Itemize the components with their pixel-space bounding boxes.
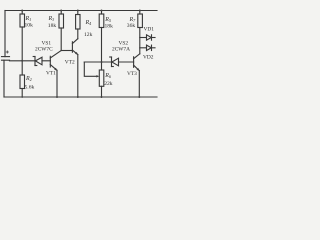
resistor R1 (21, 11, 23, 15)
wire node A row (10, 60, 36, 62)
transistor VT1 (49, 56, 51, 67)
svg-text:R3: R3 (48, 16, 55, 22)
wire VT2 emitter to bottom rail (77, 55, 79, 97)
wire R3 to VT1 collector (60, 28, 62, 51)
junction node B (R5/R6/VS2) (101, 61, 103, 63)
svg-text:R4: R4 (85, 20, 92, 26)
junction R5/top rail (101, 10, 103, 12)
svg-text:VT1: VT1 (46, 71, 56, 77)
wire node B row (84, 61, 111, 63)
wire R5 to node B (101, 28, 103, 63)
svg-text:2CW7A: 2CW7A (112, 47, 130, 53)
wiper branch of R6 (84, 62, 97, 76)
svg-text:VT2: VT2 (65, 59, 75, 65)
wire VT2 emitter (72, 50, 77, 55)
wire VS1 to VT1 base (42, 60, 50, 62)
wire capacitor to bottom rail (3, 60, 5, 97)
svg-text:VD1: VD1 (144, 27, 155, 33)
resistor R2 (20, 75, 25, 89)
emitter arrow VT1 (54, 68, 57, 71)
top supply rail (5, 10, 157, 12)
junction R7/top rail (139, 10, 141, 12)
svg-text:VD2: VD2 (143, 54, 154, 60)
diode VD1 (140, 37, 147, 39)
svg-text:10k: 10k (25, 22, 34, 28)
labels (25, 16, 155, 91)
wire VT1 collector to VT2 base (61, 50, 72, 52)
transistor VT2 (71, 42, 73, 52)
resistor R4 (77, 11, 79, 15)
transistor VT3 (133, 57, 135, 68)
emitter arrow VT3 (137, 68, 140, 71)
svg-text:R5: R5 (104, 17, 111, 23)
zener VS2 (111, 57, 113, 67)
wire VT1 emitter to bottom rail (56, 70, 58, 97)
svg-text:22k: 22k (104, 81, 113, 87)
junction node A (R1/R2/VS1/C) (21, 60, 23, 62)
plus sign of capacitor (6, 51, 9, 54)
svg-text:18k: 18k (48, 23, 57, 29)
svg-text:VS1: VS1 (42, 40, 52, 46)
resistor R7 (139, 11, 141, 15)
svg-text:R1: R1 (25, 16, 32, 22)
rheostat R6 (101, 62, 103, 70)
junction VT2 emitter/bottom rail (77, 96, 79, 98)
svg-text:VT3: VT3 (127, 71, 137, 77)
svg-text:VS2: VS2 (119, 40, 129, 46)
svg-text:12k: 12k (84, 32, 93, 38)
junction R6/bottom rail (101, 96, 103, 98)
diode VD2 (140, 47, 147, 49)
svg-text:R6: R6 (104, 73, 112, 79)
junction VT3 emitter/bottom rail (138, 96, 140, 98)
resistor R5 (101, 11, 103, 15)
svg-text:R2: R2 (25, 76, 32, 82)
svg-text:2CW7C: 2CW7C (35, 47, 53, 53)
wire VT3 collector to R7/VD1/VD2 (139, 28, 141, 54)
wire R6 to bottom rail (101, 86, 103, 97)
resistor R3 (60, 11, 62, 15)
junction R1/top rail (21, 10, 23, 12)
wire VS2 to VT3 base (119, 61, 134, 63)
junction VT1 emitter/bottom rail (56, 96, 58, 98)
svg-text:5.6k: 5.6k (25, 85, 35, 91)
junction R4/top rail (77, 10, 79, 12)
svg-text:18k: 18k (105, 24, 114, 30)
bottom supply rail (4, 96, 157, 98)
wire top rail to capacitor (4, 11, 6, 57)
wire VT3 emitter to bottom rail (138, 71, 140, 97)
zener VS1 (34, 57, 36, 66)
wire VT3 emitter (134, 65, 140, 70)
wire R1 to node A (21, 27, 23, 61)
wire R1 to R2 (21, 61, 23, 75)
junction R3/top rail (60, 10, 62, 12)
junction R2/bottom rail (21, 96, 23, 98)
svg-text:36k: 36k (127, 23, 136, 29)
capacitor C (electrolytic, left) (2, 56, 10, 58)
wire VT2 collector to R4 (77, 29, 79, 39)
emitter arrow VT2 (75, 52, 78, 55)
